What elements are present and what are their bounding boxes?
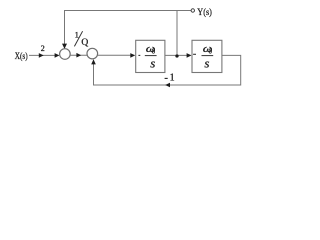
node Y(s) output terminal xyxy=(191,9,194,12)
integrator block G2 (-w0/s) xyxy=(192,40,222,72)
svg-text:0: 0 xyxy=(209,48,213,56)
label X(s) xyxy=(15,51,28,61)
label feedback gain -1 xyxy=(165,73,175,84)
label 1/Q xyxy=(74,30,88,48)
svg-text:2: 2 xyxy=(41,44,45,53)
arrowhead on wire S1 to S2 xyxy=(76,53,81,58)
arrowhead into block G2 xyxy=(187,53,192,58)
junction dot at Y(s) tap xyxy=(175,54,178,57)
wire input from X(s) xyxy=(29,54,59,56)
summing junction S2 xyxy=(87,48,98,59)
wire Y(s) tap vertical xyxy=(176,11,178,56)
svg-text:Q: Q xyxy=(81,38,88,48)
svg-text:s: s xyxy=(150,55,155,70)
svg-text:s: s xyxy=(204,55,209,70)
label Y(s) xyxy=(197,7,212,18)
summing junction S1 xyxy=(60,49,71,60)
wire S2 to block G1 xyxy=(98,54,135,56)
label gain 2 xyxy=(41,44,45,53)
svg-text:X(s): X(s) xyxy=(15,51,28,61)
wire top feedback line xyxy=(65,11,192,49)
arrowhead into summing junction S1 from top xyxy=(62,44,67,49)
svg-text:1: 1 xyxy=(170,73,175,84)
arrowhead into summing junction S2 from below xyxy=(91,59,96,64)
wire output and bottom feedback xyxy=(94,55,241,85)
svg-text:1: 1 xyxy=(75,30,79,40)
wire G1 to G2 xyxy=(165,54,191,56)
arrowhead on bottom feedback pointing left xyxy=(165,83,170,88)
arrowhead into summing junction S1 from left xyxy=(55,53,60,58)
integrator block G1 (-w0/s) xyxy=(136,40,165,72)
svg-text:0: 0 xyxy=(152,48,156,56)
wire S1 to S2 xyxy=(70,54,87,56)
arrowhead into block G1 xyxy=(130,53,135,58)
arrowhead on input wire under gain label xyxy=(39,53,44,58)
svg-text:Y(s): Y(s) xyxy=(197,7,212,18)
